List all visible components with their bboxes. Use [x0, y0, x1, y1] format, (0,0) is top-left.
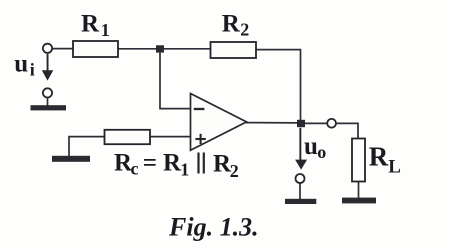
ground (Rc): [52, 156, 90, 162]
input terminal (upper): [43, 44, 52, 53]
wire output terminal to RL corner: [336, 123, 358, 139]
wire input to R1: [52, 48, 74, 50]
node A junction dot: [156, 45, 164, 52]
wire Rc left to ground: [69, 137, 105, 156]
resistor RL: [352, 139, 365, 182]
svg-text:o: o: [317, 142, 326, 162]
svg-text:1: 1: [180, 160, 189, 180]
svg-text:c: c: [131, 159, 139, 179]
svg-text:2: 2: [240, 20, 249, 40]
wire output lower terminal to ground: [299, 183, 301, 200]
svg-text:1: 1: [101, 20, 110, 40]
arrow uo: [295, 128, 307, 170]
svg-text:R: R: [369, 142, 389, 172]
ground (output): [285, 199, 316, 204]
wire feedback node A down to op-amp minus input: [160, 53, 190, 109]
svg-text:u: u: [14, 50, 28, 77]
wire Rc to op-amp plus input: [150, 136, 190, 138]
output lower terminal: [296, 174, 305, 183]
resistor R1: [73, 41, 118, 57]
svg-text:i: i: [30, 59, 35, 79]
wire node A to R2: [163, 48, 211, 50]
wire RL to ground: [358, 182, 360, 199]
op-amp U1: [191, 94, 247, 151]
svg-text:R: R: [222, 11, 241, 38]
wire R2 to output corner: [256, 50, 301, 120]
ground (input): [31, 105, 67, 110]
svg-text:=: =: [143, 150, 157, 177]
output terminal: [327, 119, 336, 128]
svg-text:L: L: [388, 157, 401, 178]
label Rc = R1 || R2: [114, 150, 239, 182]
input terminal (lower): [43, 88, 52, 97]
svg-text:u: u: [304, 133, 318, 160]
wire R1 to node A: [118, 48, 157, 50]
svg-text:R: R: [81, 11, 100, 38]
arrow ui: [42, 54, 54, 81]
node B junction dot: [297, 120, 305, 127]
wire op-amp output to node B: [247, 122, 299, 124]
resistor R2: [211, 42, 257, 58]
svg-text:R: R: [163, 150, 182, 177]
wire input lower terminal to ground: [47, 97, 49, 105]
svg-text:Fig. 1.3.: Fig. 1.3.: [168, 213, 259, 242]
ground (RL): [342, 198, 376, 204]
svg-text:2: 2: [230, 161, 239, 181]
wire node B to output terminal: [305, 122, 327, 124]
resistor Rc: [105, 130, 151, 144]
